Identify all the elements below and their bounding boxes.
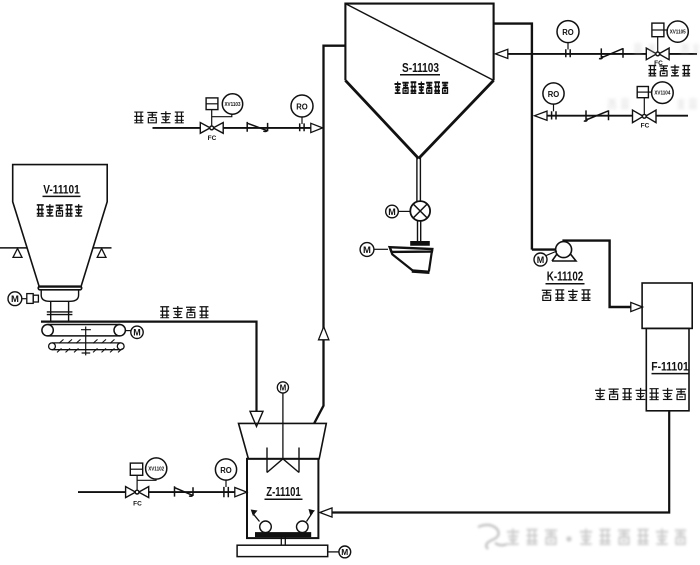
label 原料煤贮仓 (37, 204, 83, 216)
control valve XV1102 (126, 463, 156, 498)
instrument bubble XV1105 (667, 21, 688, 42)
svg-text:RO: RO (296, 101, 308, 111)
motor M of silo discharge (8, 292, 38, 306)
silo V-11101 body (13, 165, 108, 287)
bag filter S-11103 body (345, 4, 493, 81)
table shaft (281, 537, 285, 545)
restriction orifice RO line2 (543, 83, 564, 120)
svg-text:FC: FC (208, 135, 217, 142)
svg-text:XV1105: XV1105 (670, 30, 686, 36)
svg-text:M: M (280, 383, 287, 392)
motor M of belt conveyor (125, 326, 143, 338)
wire: filter dust outlet pipe (417, 157, 421, 201)
wire: vertical pipeline from conveyor to mill hopper (41, 322, 257, 412)
svg-text:F-11101: F-11101 (651, 360, 689, 374)
conveyor center shaft (81, 327, 91, 356)
roller right flag (307, 513, 313, 522)
svg-text:M: M (363, 245, 371, 256)
svg-text:M: M (341, 547, 348, 557)
conveyor hatching (57, 339, 123, 352)
control valve XV1105 (646, 23, 676, 60)
belt conveyor upper belt (42, 325, 126, 336)
wire: riser elbow into fan (532, 248, 556, 250)
wire: inert gas line to mill (332, 411, 669, 513)
arrow into mill hopper (250, 411, 263, 426)
label 循环风机 (542, 289, 591, 301)
svg-text:V-11101: V-11101 (43, 183, 80, 197)
svg-text:Z-11101: Z-11101 (266, 484, 301, 499)
svg-text:RO: RO (562, 27, 574, 37)
silo support line left (0, 247, 27, 249)
silo outlet flange (38, 286, 81, 290)
restriction orifice RO left (291, 95, 313, 131)
svg-text:RO: RO (220, 465, 232, 475)
motor M of screw feeder (360, 243, 388, 257)
motor M of rotary valve (386, 205, 411, 218)
svg-text:XV1104: XV1104 (654, 91, 671, 97)
wire: riser pipe from mill to filter (314, 46, 344, 424)
label 低压氮气 left (134, 111, 184, 123)
wire: nitrogen line 2 (547, 115, 688, 117)
faint smudge top right 2 (608, 98, 697, 108)
mill hopper (239, 423, 327, 458)
manual valve line1 (599, 48, 623, 59)
wire: pipe below rotary valve (418, 221, 421, 241)
arrow into mill left wall (235, 488, 247, 497)
instrument bubble XV1102 (146, 458, 167, 479)
silo support trunnion right (97, 249, 106, 258)
svg-text:FC: FC (133, 501, 142, 508)
svg-text:RO: RO (548, 89, 560, 99)
label 低压氮气 right (648, 65, 690, 76)
grinding roller right (297, 521, 309, 533)
bag filter hopper (345, 80, 493, 158)
silo support trunnion left (13, 249, 22, 258)
grinding roller left (260, 521, 272, 533)
mill base (237, 545, 328, 556)
arrow into fan riser (535, 111, 548, 120)
instrument bubble XV1104 (652, 82, 674, 104)
arrow into filter right wall (495, 49, 507, 58)
faint smudge top right 1 (634, 43, 699, 53)
wire: coal feed line into mill (78, 491, 235, 493)
svg-text:FC: FC (641, 123, 650, 130)
flow arrow on riser (319, 327, 329, 340)
arrow into riser (311, 123, 323, 132)
motor M of classifier (277, 382, 288, 459)
motor M of mill (328, 546, 351, 558)
classifier marks (267, 448, 299, 473)
motor M of fan (534, 251, 557, 266)
restriction orifice RO line1 (557, 21, 579, 58)
wire: left nitrogen purge line (153, 127, 311, 129)
svg-text:M: M (11, 294, 19, 305)
silo neck (47, 301, 73, 321)
roller left flag (253, 513, 260, 522)
wire: top-right nitrogen line 1 (508, 53, 697, 55)
grinding table (256, 533, 311, 537)
manual valve on left nitrogen line (247, 122, 267, 132)
belt conveyor lower belt (49, 343, 125, 350)
silo outlet head (41, 290, 78, 302)
svg-text:XV1103: XV1103 (225, 102, 241, 108)
wire: filter clean gas outlet to fan riser (494, 24, 532, 250)
arrow into F-11101 (631, 302, 643, 311)
svg-text:S-11103: S-11103 (402, 60, 439, 75)
svg-text:M: M (133, 328, 141, 338)
fan K-11102 (552, 242, 576, 261)
label 垂直管线 (160, 306, 208, 318)
mill body Z-11101 (247, 459, 318, 538)
silo support line right (93, 247, 112, 249)
instrument bubble XV1103 (222, 94, 242, 114)
control valve XV1104 (633, 87, 658, 123)
screw feeder trough (390, 247, 433, 272)
rotary valve under filter (410, 201, 430, 221)
wire: fan discharge to inert gas generator (564, 241, 631, 307)
control valve XV1103 (200, 98, 232, 133)
label 粉煤袋式过滤器 (395, 81, 449, 93)
arrow into mill right wall (320, 508, 332, 517)
inert gas generator F-11101 lower box (646, 328, 689, 410)
restriction orifice RO feed (215, 459, 236, 497)
inert gas generator F-11101 upper box (642, 283, 692, 328)
svg-text:M: M (537, 255, 545, 265)
manual valve on feed line (175, 486, 194, 496)
svg-text:XV1102: XV1102 (148, 467, 164, 473)
screw feeder flange (411, 242, 429, 246)
label 惰性气体发生器 (595, 388, 686, 400)
svg-text:M: M (388, 207, 396, 217)
svg-text:K-11102: K-11102 (547, 269, 584, 284)
watermark (478, 525, 686, 549)
manual valve line2 (584, 110, 609, 121)
